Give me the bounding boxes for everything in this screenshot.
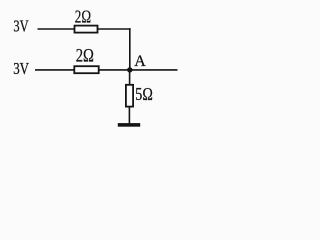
wire top-left	[38, 28, 75, 30]
svg-text:A: A	[134, 53, 146, 70]
wire node A down to resistor 5Ω	[129, 70, 131, 85]
svg-text:3V: 3V	[13, 59, 29, 78]
svg-text:5Ω: 5Ω	[135, 84, 153, 104]
wire top-right	[98, 28, 131, 30]
svg-text:2Ω: 2Ω	[76, 46, 94, 67]
svg-text:3V: 3V	[13, 17, 29, 36]
ground bar	[118, 123, 140, 127]
resistor R2 2Ω (middle)	[74, 66, 98, 73]
wire middle-left	[35, 69, 74, 71]
junction dot at node A	[127, 67, 132, 72]
resistor R1 2Ω (top)	[75, 26, 98, 33]
wire resistor 5Ω to ground	[128, 107, 130, 124]
wire middle-right through node A	[99, 69, 178, 71]
wire vertical from top row down to node A	[129, 28, 131, 70]
resistor R3 5Ω (vertical)	[126, 85, 133, 107]
svg-text:2Ω: 2Ω	[75, 7, 91, 27]
